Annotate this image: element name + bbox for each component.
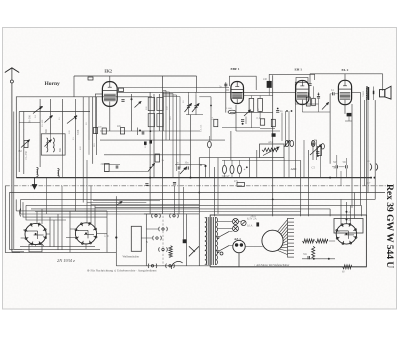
junction (242, 123, 244, 125)
wire to speaker (382, 74, 384, 91)
wire osc trimmer b stem (195, 95, 197, 115)
wire socket2 feed a (86, 160, 88, 223)
trimmer arrow a (185, 104, 192, 113)
wire vertical 289 (288, 111, 290, 178)
lamp scale 2 (233, 226, 239, 232)
capacitor 50n b (346, 165, 348, 168)
junction 4u (370, 177, 372, 179)
wire cross band 62 (61, 186, 63, 217)
wire (145, 214, 147, 266)
wire bus 155 (104, 154, 190, 156)
wire tuner inner left (18, 112, 20, 173)
wire lamp feed a (218, 221, 233, 223)
wire (23, 112, 25, 175)
junction (75, 118, 77, 120)
wire socket1 pin right (46, 233, 50, 235)
wire cathode V4 (344, 105, 346, 114)
wire (137, 128, 139, 136)
transformer T1 primary winding (205, 218, 207, 265)
connector brace (370, 164, 372, 171)
motor M1 (262, 230, 283, 251)
junction (39, 108, 41, 110)
wire drop (360, 205, 362, 216)
wire tube V1 top cap (109, 76, 111, 82)
capacitor osc trimmer a (187, 106, 190, 108)
wire (224, 160, 226, 165)
wire main chassis bus (16, 177, 370, 179)
trimmer mid arrow (180, 168, 186, 175)
junction (115, 236, 117, 238)
capacitor electrolytic oval 2 (230, 165, 234, 173)
wire anode V2 (243, 95, 273, 97)
wire vertical 218 (217, 158, 219, 214)
capacitor osc trimmer b (194, 106, 197, 108)
motor leads fan (277, 220, 287, 255)
coil L1 (37, 168, 39, 177)
wire IF1 right (162, 92, 164, 131)
svg-text:B: B (200, 163, 202, 167)
coil IF1 primary (148, 97, 154, 110)
box power supply chassis (210, 215, 366, 267)
wire (245, 117, 247, 125)
wire tuner box outline (16, 97, 152, 178)
wire long vertical 199 (198, 158, 200, 266)
wire (348, 116, 350, 121)
svg-text:Rex 39 GW W 544 U: Rex 39 GW W 544 U (384, 184, 394, 268)
volume pot arrow (322, 103, 329, 110)
wire inter socket b (53, 220, 55, 247)
wire (268, 88, 270, 96)
capacitor 0.1 coupling (333, 92, 335, 95)
trimmer padder (135, 102, 142, 108)
switch contact pair (153, 236, 162, 240)
wire nest top 4 (26, 205, 66, 220)
wire (329, 240, 335, 242)
wire drop 2 (329, 209, 331, 216)
junction (198, 192, 200, 194)
resistor 0.3 (214, 119, 218, 126)
coil L2 (58, 169, 60, 178)
wire vertical 211 (210, 97, 212, 140)
wire right rail (365, 87, 367, 216)
trimmer arrow tone (310, 145, 322, 156)
wire switch top (144, 213, 199, 215)
svg-text:5358: 5358 (77, 129, 80, 135)
component blob a (144, 142, 147, 145)
wire socket1 pin down b (41, 243, 44, 247)
svg-text:3r: 3r (333, 165, 336, 169)
svg-text:L1445: L1445 (226, 107, 233, 110)
resistor 300 (249, 98, 254, 111)
wire AZ1 to motor (245, 246, 263, 248)
wire (250, 96, 252, 99)
wire (104, 170, 148, 172)
wire bracket V2 top (229, 76, 256, 90)
capacitor 10n (187, 166, 189, 169)
svg-text:A61: A61 (268, 141, 273, 144)
wire (332, 166, 335, 168)
wire to socket1 pin (23, 229, 25, 231)
wire (229, 245, 233, 247)
wire B to bus (205, 166, 207, 178)
capacitor grid V2 2p (224, 84, 227, 86)
switch lever (189, 246, 199, 256)
wire (239, 160, 241, 165)
capacitor 50n a (336, 165, 338, 168)
wire (190, 115, 192, 178)
tube socket V2 underside (75, 222, 97, 244)
junction cap 2u a (346, 211, 348, 213)
box wave switch (131, 226, 141, 251)
wire into rectifier d (353, 193, 355, 219)
junction 4u b (374, 177, 376, 179)
resistor 240 dark (267, 81, 271, 87)
wire (222, 127, 260, 129)
wire earth line parallel (13, 112, 15, 250)
wire antenna to socket (12, 251, 24, 253)
resistor diode load a (306, 97, 310, 106)
capacitor electrolytic oval (208, 141, 212, 147)
wire AF line (329, 94, 331, 164)
wire (230, 112, 273, 114)
wire nest right edge (106, 211, 108, 253)
wire bus 186 dash-dot (5, 185, 392, 187)
wire (163, 93, 173, 95)
junction (277, 108, 279, 110)
wire inter socket c (57, 214, 59, 250)
resistor R1 adjustable (21, 140, 30, 148)
wire (75, 99, 77, 211)
wire lamp feed b (218, 228, 233, 230)
wire antenna feed down (11, 83, 13, 252)
resistor feedback (318, 147, 322, 156)
wire socket1 feed b (41, 209, 43, 224)
junction cap 2u b (346, 219, 348, 221)
tube V1 EK2 (102, 82, 117, 107)
svg-text:4μF: 4μF (367, 182, 371, 185)
wire bottom rail left (116, 265, 210, 267)
paper texture (0, 0, 1, 1)
svg-text:A60: A60 (291, 167, 297, 171)
wire (239, 221, 242, 223)
svg-text:30–300: 30–300 (29, 115, 32, 123)
contact blob (183, 239, 187, 243)
transformer T1 core (206, 217, 215, 265)
wire vertical drop 174 (174, 186, 176, 214)
coil oval horizontal (228, 110, 236, 114)
wire vertical drop 183 (183, 187, 185, 239)
wire (104, 164, 120, 166)
wire stair 2 (87, 202, 146, 204)
wire grid line (117, 87, 229, 89)
junction (139, 130, 141, 132)
wire dropper V3 grid cap (309, 74, 311, 83)
wire bus 199 (21, 198, 376, 200)
wire bus 211 (35, 211, 301, 213)
junction (210, 105, 212, 107)
svg-text:⊕ Für Nachrichtung d. Urheberr: ⊕ Für Nachrichtung d. Urheberrechte · Au… (87, 268, 157, 272)
lamp scale 1 (233, 219, 239, 225)
antenna A1 (5, 68, 19, 83)
wire into rectifier b (346, 202, 348, 224)
wire (335, 93, 338, 95)
wire AVC line (117, 91, 295, 93)
coil IF2 primary (148, 114, 154, 127)
resistor 2k mid (155, 154, 160, 162)
wire dropper to tuner (73, 76, 75, 97)
capacitor tone (311, 143, 314, 145)
capacitor block dark (256, 222, 259, 226)
switch mains b (217, 246, 229, 253)
capacitor on bus a (145, 184, 148, 186)
wire (96, 97, 98, 155)
wire vertical 250 (249, 158, 251, 178)
resistor ballast b (316, 239, 328, 243)
svg-text:0,1–0,3: 0,1–0,3 (200, 124, 203, 132)
wire (163, 96, 180, 98)
wire sec return (367, 100, 369, 192)
capacitor dark block (272, 133, 276, 137)
wire nest top 3 (23, 202, 107, 217)
wire V3 left lead (294, 82, 296, 104)
wire vertical 300 (300, 160, 302, 211)
wire (153, 94, 155, 178)
wire bus 131 (100, 130, 200, 132)
capacitor electrolytic oval 3 (238, 165, 242, 173)
coil L4 inside box (53, 138, 54, 152)
wire (339, 166, 345, 168)
wire (318, 92, 320, 96)
fuse circle (241, 220, 246, 225)
wire bus 205 (26, 204, 361, 206)
box under socket1 (29, 244, 42, 251)
wire osc trimmer a stem (188, 95, 190, 115)
wire top rail D (310, 73, 383, 75)
wire (229, 231, 233, 233)
junction (246, 166, 248, 168)
wire socket2 feed c (94, 205, 96, 227)
svg-text:2N 1934 z: 2N 1934 z (57, 258, 75, 263)
wire vertical 308 (308, 150, 310, 216)
wire (95, 93, 102, 95)
wire into rectifier c (349, 205, 351, 225)
wire bundle e (179, 97, 181, 169)
wire (313, 86, 315, 98)
component blob b (149, 140, 152, 143)
wire (163, 90, 166, 92)
wire switch stub (141, 237, 152, 239)
wire (236, 130, 280, 132)
wire (163, 94, 177, 96)
wire nest 3 drop (15, 199, 17, 211)
wire inter socket e (69, 211, 71, 253)
wire socket2 pin down (85, 244, 87, 249)
wire vertical 304 (303, 140, 305, 178)
wire cathode V1 (109, 106, 111, 131)
capacitor 10n (121, 100, 124, 102)
box tube V3 top structure (296, 78, 308, 83)
wire vertical 320 (319, 146, 321, 178)
wire (195, 92, 197, 95)
wire (312, 140, 314, 160)
wire tuner inner top (19, 111, 90, 113)
wire vertical 282 (281, 113, 283, 141)
wire (163, 91, 170, 93)
svg-text:0,1A: 0,1A (247, 225, 253, 228)
wire vertical 214 (214, 167, 216, 216)
junction (51, 115, 53, 117)
wire drop 3 (300, 212, 302, 217)
wire switch rail (115, 196, 117, 266)
wire (226, 89, 229, 91)
svg-text:EBF 1: EBF 1 (231, 67, 240, 71)
svg-text:EH 1: EH 1 (295, 68, 303, 72)
resistor b (260, 119, 264, 125)
switch contact pair (159, 247, 168, 251)
trimmer C2 (33, 107, 42, 114)
wire (259, 111, 261, 118)
trimmer IF adj (244, 110, 251, 116)
trimmer oval d (321, 144, 324, 149)
wire 50n lead up (336, 155, 338, 165)
junction (131, 98, 133, 100)
wire bus 160 (222, 159, 301, 161)
wire vertical drop 179 (178, 171, 180, 214)
wire (295, 103, 318, 105)
wire bundle b (169, 92, 171, 140)
wire stub 50 (50, 134, 52, 140)
trimmer oval c (311, 140, 315, 146)
wire switch stub 2 (146, 228, 158, 230)
wire (250, 111, 252, 127)
tube V4 EL2 (338, 80, 351, 104)
transformer T1 secondary winding (216, 218, 218, 265)
capacitor right mid (316, 152, 319, 154)
trimmer oval a (285, 140, 289, 146)
svg-text:C5: C5 (312, 165, 316, 169)
wire nest top 1 (16, 210, 107, 212)
resistor antenna shunt (24, 141, 28, 148)
svg-text:Horny: Horny (45, 81, 61, 87)
wire to socket2 pin b (66, 236, 75, 238)
arc tuning (171, 262, 182, 269)
trimmer C5 (45, 140, 52, 147)
tube V3 (296, 81, 309, 105)
wire (363, 100, 365, 186)
wire tube V4 top (344, 74, 346, 80)
wire bus 140 (100, 139, 225, 141)
trimmer C3 (45, 116, 53, 123)
wire (330, 93, 332, 95)
capacitor IF tune (142, 131, 144, 134)
rectifier tube socket (336, 223, 357, 244)
wire dropper A end (196, 76, 198, 92)
svg-text:20–500: 20–500 (41, 119, 44, 127)
trimmer C4 (67, 116, 77, 124)
junction (329, 177, 331, 179)
wire (208, 136, 210, 141)
wire vertical 284 (283, 158, 285, 178)
wire socket1 pin down (35, 245, 37, 247)
wire (188, 92, 190, 95)
box rectifier shield (334, 219, 363, 234)
wire (131, 94, 133, 131)
wire heater chain right (351, 104, 353, 208)
junction B (204, 165, 206, 167)
trimmer arrow b (192, 104, 199, 113)
junction (317, 155, 319, 157)
wire (345, 120, 352, 122)
capacitor grid V3 (308, 84, 311, 86)
coil box L3 L4 (41, 134, 65, 155)
resistor in bottom rail (343, 265, 352, 269)
switch contact left (19, 209, 22, 217)
connector brace 2 (376, 164, 378, 171)
wire 50nb lead up (345, 158, 347, 165)
wire (259, 96, 261, 99)
wire trimmer base (186, 114, 203, 116)
junction (50, 139, 52, 141)
speaker LS (380, 86, 392, 99)
wire bus 192 (9, 192, 385, 194)
capacitor det (317, 96, 320, 98)
wire vertical 257 (256, 150, 258, 178)
wire cathode V2 (235, 105, 237, 131)
wire nest 1 (5, 186, 20, 253)
switch spindle dashed (162, 216, 164, 266)
junction (41, 106, 43, 108)
arrow in box (263, 147, 279, 156)
wire (224, 174, 226, 178)
svg-text:EL 2: EL 2 (342, 68, 349, 72)
wire (302, 111, 330, 113)
resistor vertical switch (169, 246, 172, 258)
wire vertical 341 (340, 171, 342, 186)
wire to socket1 pin b (21, 237, 26, 239)
wire nest low 1 (20, 245, 95, 247)
junction (328, 258, 330, 260)
switch mains a (217, 232, 229, 239)
tube socket AZ1 (233, 240, 245, 266)
wire bottom rail (210, 266, 342, 268)
wire vertical 285 (285, 111, 287, 147)
wire (199, 96, 211, 98)
switch contact pair (148, 264, 157, 268)
terminal strip comb (288, 218, 295, 258)
wire stair 1 (93, 200, 160, 202)
wire dropper grid V2 (225, 82, 227, 112)
wire V3 cathode (301, 105, 303, 112)
wire (158, 94, 160, 131)
svg-text:70000: 70000 (362, 90, 365, 97)
wire bottom rail right (351, 266, 366, 268)
wire nest 2 (9, 193, 22, 250)
resistor 400 (102, 128, 106, 134)
wire B+ right (360, 93, 362, 206)
resistor 2k (258, 98, 263, 111)
resistor 4n unit (271, 119, 275, 126)
wire (95, 94, 97, 134)
svg-text:6,3V 2A: 6,3V 2A (247, 218, 257, 221)
wire (302, 258, 335, 260)
wire (50, 99, 52, 134)
tube socket V1 underside (25, 223, 47, 245)
wire stair 4 (95, 207, 199, 209)
junction (190, 177, 192, 179)
wire secondary (373, 87, 375, 101)
wire socket2 feed b (90, 186, 92, 224)
junction (291, 110, 293, 112)
